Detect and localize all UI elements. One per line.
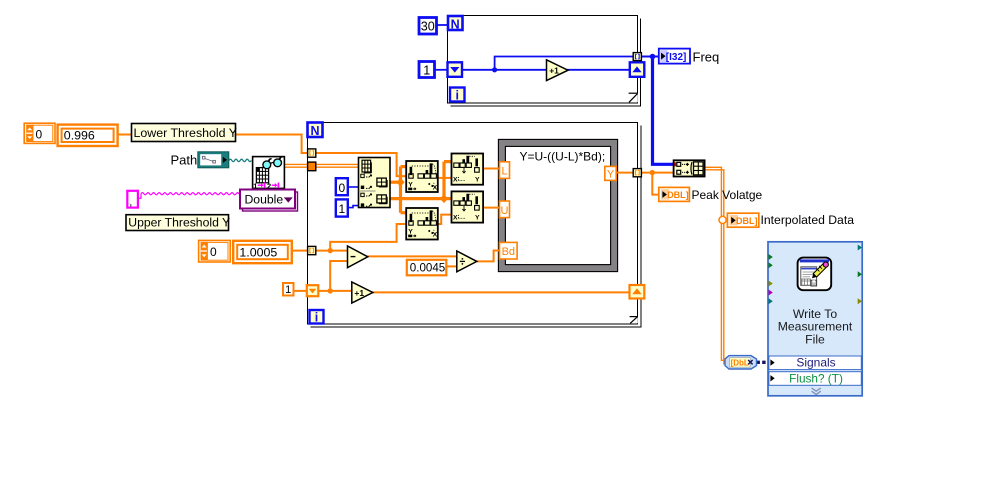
Interpolate 1D Array VI (lower): [452, 191, 484, 222]
formula node terminal Y: [605, 166, 616, 180]
label Upper Threshold Y: [126, 215, 230, 231]
left shift register (top loop): [448, 62, 463, 77]
svg-text:File: File: [805, 332, 825, 346]
svg-text:Double: Double: [245, 193, 284, 207]
wire: Index Array row0 output to both Threshold VIs (thick 1D array): [390, 181, 401, 184]
convert to dynamic data node: [725, 356, 757, 369]
hollow junction circle: [719, 216, 726, 223]
svg-text:Upper Threshold Y: Upper Threshold Y: [128, 216, 230, 230]
numeric control 0.996: [58, 125, 118, 146]
array index spinner (lower threshold): [24, 123, 55, 143]
count terminal N (main loop): [308, 123, 323, 139]
wire: 2D array tunnel to Index Array (double line): [316, 163, 359, 165]
wire: tunnel to Freq indicator: [641, 56, 659, 58]
wire: dynamic data wire to express VI Signals input: [757, 361, 769, 364]
for-loop frame (top loop): [448, 16, 641, 107]
svg-text:Lower Threshold Y: Lower Threshold Y: [134, 126, 238, 140]
right edge terminal arrows: [858, 245, 862, 251]
right shift register (main loop): [630, 285, 645, 299]
wire: 0.0045 to divide bottom input: [446, 265, 457, 267]
svg-text:i: i: [455, 89, 458, 103]
numeric control 1.0005: [233, 241, 292, 263]
svg-text:DBL]: DBL]: [667, 190, 689, 200]
junction dot on 1.0005 wire: [328, 248, 333, 253]
svg-text:L: L: [501, 166, 507, 178]
svg-text:Flush? (T): Flush? (T): [789, 371, 843, 385]
count terminal N (top loop): [448, 16, 463, 31]
svg-text:Y: Y: [408, 181, 413, 188]
svg-text:Interpolated Data: Interpolated Data: [761, 213, 855, 227]
wire junction diamond on row0: [396, 178, 404, 187]
expand chevron: [812, 388, 821, 394]
svg-text:Y=U-((U-L)*Bd);: Y=U-((U-L)*Bd);: [520, 150, 606, 164]
tunnel: lower threshold input: [308, 149, 316, 157]
wire: Y terminal to loop output tunnel: [616, 172, 634, 174]
svg-text:Bd: Bd: [502, 246, 515, 258]
wire: Index Array row1 output to both Interpolate VIs (thick 1D array): [390, 197, 452, 200]
tunnel: Y output: [633, 169, 641, 177]
numeric constant 1 (index): [336, 199, 348, 216]
wire: branch up to subtract bottom input: [330, 261, 348, 291]
subtract node: [348, 246, 368, 268]
build matrix node: [674, 160, 705, 176]
wire: branch up to indexing tunnel (top loop): [495, 57, 634, 70]
wire: lower Threshold VI to lower Interpolate VI: [438, 215, 452, 224]
svg-text:+1: +1: [354, 288, 364, 298]
tunnel: 1.0005 input: [308, 246, 316, 254]
wire: divide output to Bd terminal: [477, 251, 500, 262]
DBL indicator Peak Voltage: [659, 187, 690, 201]
svg-text:X: X: [453, 214, 458, 221]
svg-text:1: 1: [423, 64, 430, 78]
junction dot at Freq branch: [650, 54, 656, 60]
Flush row: [769, 372, 861, 386]
numeric constant 0 (index): [336, 178, 348, 195]
Interpolate 1D Array VI (upper): [452, 154, 484, 185]
wire: 1.0005 to tunnel: [292, 250, 308, 252]
svg-text:0: 0: [338, 181, 345, 195]
wire: tunnel to build node: [641, 172, 674, 174]
Signals row: [769, 356, 861, 370]
wire: branch down to Peak Voltage indicator: [652, 173, 659, 195]
wire: build node output down to convert node (2D double line): [705, 167, 727, 360]
array index spinner (1.0005): [199, 240, 231, 262]
wire: 1.0005 tunnel to subtract top input: [316, 250, 348, 252]
indexing tunnel [] (top loop): [633, 53, 641, 61]
numeric constant 30: [419, 18, 437, 35]
wire: shift register to +1 (main loop): [318, 290, 352, 292]
wire: blue index 1 to Index Array: [348, 206, 359, 208]
svg-text:Signals: Signals: [796, 356, 835, 370]
svg-text:,: ,: [129, 197, 132, 209]
wire: 1.0005 branch up to lower Threshold VI threshold input: [330, 224, 406, 251]
svg-text:DBL]: DBL]: [736, 216, 758, 226]
wire: lower threshold inside loop to upper Threshold VI: [316, 153, 406, 176]
wire: +1 output to right shift register (main loop): [373, 291, 631, 293]
svg-text:Freq: Freq: [693, 50, 720, 65]
junction dot on Y output wire: [650, 170, 655, 175]
DBL indicator Interpolated Data: [727, 213, 758, 227]
wire: shift register to +1 and to right shift register (top loop): [461, 69, 547, 71]
Threshold 1D Array VI (upper): [406, 161, 438, 192]
wire: 0.996 to Lower Threshold Y label to loop tunnel: [118, 134, 132, 136]
svg-text:0: 0: [36, 127, 43, 141]
svg-text:U: U: [501, 205, 509, 217]
pencil: [812, 262, 828, 278]
svg-text:1.0005: 1.0005: [239, 245, 277, 259]
Read Delimited Spreadsheet VI: [253, 157, 285, 191]
wire: branch to Interpolated Data indicator: [723, 217, 728, 219]
svg-text:Y: Y: [475, 176, 480, 183]
svg-text:[I32]: [I32]: [666, 52, 687, 63]
tunnel: 2D array input (solid): [308, 162, 316, 171]
svg-text:i: i: [315, 311, 318, 325]
wire: subtract output to divide: [368, 255, 458, 257]
svg-text:0.0045: 0.0045: [410, 262, 445, 275]
formula node frame: [498, 139, 617, 271]
string constant (comma): [127, 191, 138, 209]
svg-text:Path: Path: [171, 152, 198, 167]
polymorphic selector Double: [240, 190, 298, 212]
numeric constant 1 (top loop): [419, 62, 435, 78]
express VI icon: [798, 258, 832, 291]
wire: blue index 0 to Index Array: [348, 186, 359, 188]
junction dot on shift register wire: [328, 288, 333, 293]
svg-text:N: N: [451, 17, 460, 31]
wire: 1 to left shift register (top loop): [435, 69, 449, 71]
wire: upper Interpolate VI to L terminal: [483, 168, 500, 170]
svg-text:Peak Volatge: Peak Volatge: [692, 188, 763, 202]
formula node terminal Bd: [500, 242, 518, 259]
while-loop frame (main loop): [308, 123, 642, 328]
iteration terminal i (top loop): [450, 88, 465, 103]
wire: 1 constant to left shift register (main loop): [293, 290, 307, 292]
svg-text:X: X: [433, 185, 438, 192]
Write To Measurement File express VI: [768, 242, 862, 396]
numeric constant 1 (main loop): [283, 283, 294, 296]
wire: lower Interpolate VI to U terminal: [483, 207, 500, 209]
wire: path control to spreadsheet VI (teal squiggle): [229, 159, 251, 161]
svg-text:X: X: [453, 176, 458, 183]
path control: [198, 152, 229, 168]
left edge terminal arrows: [769, 254, 773, 260]
wire: 30 to N: [436, 24, 448, 26]
svg-text:X: X: [433, 232, 438, 239]
I32 array indicator Freq: [659, 49, 690, 64]
wire: spreadsheet VI 2D array output to loop tunnel (double line): [285, 163, 309, 165]
increment +1 node (main loop): [352, 282, 373, 303]
increment +1 node (top loop): [547, 60, 569, 81]
svg-text:0: 0: [210, 245, 217, 259]
svg-text:1: 1: [338, 202, 345, 216]
formula node terminal U: [500, 201, 510, 218]
svg-text:Y: Y: [475, 214, 480, 221]
wire: string constant to Double selector (magenta squiggle): [138, 193, 241, 199]
left shift register (main loop): [307, 285, 319, 296]
formula node terminal L: [500, 162, 510, 179]
right shift register (top loop): [630, 62, 645, 77]
wire junction diamond on row1: [440, 194, 448, 203]
numeric constant 0.0045: [407, 260, 447, 276]
wire: upper Threshold VI to upper Interpolate VI: [438, 177, 452, 179]
Threshold 1D Array VI (lower): [406, 208, 438, 240]
svg-text:Y: Y: [408, 228, 413, 235]
svg-text:[DbL: [DbL: [731, 359, 749, 368]
svg-text:+1: +1: [549, 66, 559, 76]
svg-text:Y: Y: [607, 169, 615, 181]
svg-text:1: 1: [285, 284, 291, 296]
wire: I32 array down to build node (thick blue): [653, 57, 674, 164]
junction dot (top loop): [492, 67, 497, 72]
divide node: [457, 251, 477, 272]
svg-text:N: N: [310, 124, 319, 138]
svg-text:30: 30: [421, 20, 435, 34]
Index Array node: [359, 158, 391, 208]
svg-text:0.996: 0.996: [64, 129, 95, 143]
iteration terminal i (main loop): [310, 310, 324, 325]
label Lower Threshold Y: [132, 124, 238, 142]
